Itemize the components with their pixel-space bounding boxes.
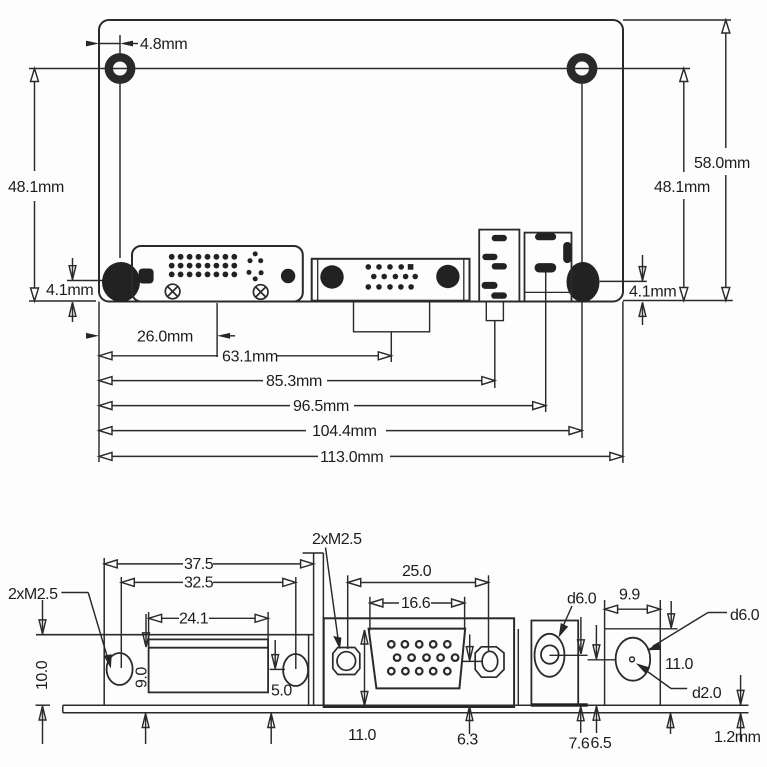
svg-text:6.5: 6.5 bbox=[591, 735, 612, 752]
svg-text:6.3: 6.3 bbox=[457, 732, 478, 749]
DC jack2 top reference line bbox=[605, 628, 678, 630]
leader d2.0 bbox=[636, 663, 687, 688]
extension line board right bottom bbox=[622, 302, 624, 464]
dimension 6.3 bbox=[462, 634, 483, 734]
extension line DC connector center bbox=[494, 321, 496, 388]
DVI screw left side view bbox=[107, 653, 133, 685]
svg-text:113.0mm: 113.0mm bbox=[320, 449, 383, 466]
dimension 4.1mm left bbox=[67, 258, 103, 322]
svg-text:48.1mm: 48.1mm bbox=[8, 179, 64, 196]
dimension 16.6 bbox=[370, 597, 465, 631]
dimension 85.3mm bbox=[99, 377, 495, 385]
svg-text:32.5: 32.5 bbox=[184, 575, 214, 592]
corner pad bottom-left bbox=[102, 262, 140, 302]
DVI screw right side view bbox=[283, 654, 308, 686]
switch connector top view bbox=[525, 233, 572, 302]
svg-text:d2.0: d2.0 bbox=[692, 685, 722, 702]
svg-text:d6.0: d6.0 bbox=[567, 591, 597, 608]
dimension 7.6 bbox=[577, 617, 584, 733]
leader 2xM2.5 top bbox=[326, 548, 342, 650]
svg-text:104.4mm: 104.4mm bbox=[312, 423, 377, 440]
svg-text:16.6: 16.6 bbox=[401, 595, 431, 612]
svg-text:25.0: 25.0 bbox=[402, 563, 432, 580]
top view labels bbox=[8, 36, 750, 466]
mounting hole left bbox=[109, 57, 131, 79]
svg-text:5.0: 5.0 bbox=[271, 683, 292, 700]
dimension 4.1mm right bbox=[600, 255, 733, 325]
svg-text:58.0mm: 58.0mm bbox=[694, 155, 750, 172]
DVI screw boss left bbox=[165, 284, 180, 299]
dimension 26.0mm bbox=[86, 333, 235, 339]
dimension 48.1mm left bbox=[29, 69, 96, 302]
DC jack2 circle bbox=[616, 638, 651, 681]
mounting hole right bbox=[571, 57, 593, 79]
dimension 37.5 bbox=[104, 560, 313, 568]
extension line switch connector center bbox=[545, 273, 547, 413]
dimension 1.2mm bbox=[737, 675, 744, 741]
dimension 9.9 bbox=[605, 600, 661, 705]
svg-text:37.5: 37.5 bbox=[184, 556, 214, 573]
dimension 4.8mm bbox=[86, 41, 138, 47]
VGA trapezoid shell bbox=[369, 629, 466, 689]
corner pad bottom-right bbox=[567, 262, 600, 302]
pcb strip side view bbox=[36, 705, 749, 713]
svg-text:2xM2.5: 2xM2.5 bbox=[8, 586, 58, 603]
dimension 96.5mm bbox=[99, 402, 546, 410]
svg-text:24.1: 24.1 bbox=[179, 611, 209, 628]
svg-text:48.1mm: 48.1mm bbox=[654, 179, 710, 196]
VGA hex nut right bbox=[475, 647, 504, 677]
dimension 24.1 bbox=[149, 612, 269, 648]
dimension 58.0mm right bbox=[623, 20, 731, 301]
VGA pin grid 15 bbox=[366, 264, 419, 290]
VGA bracket body bbox=[324, 618, 514, 707]
DC jack side view bbox=[531, 621, 588, 707]
dimension 104.4mm bbox=[99, 427, 582, 435]
svg-text:1.2mm: 1.2mm bbox=[714, 729, 761, 746]
dimension 9.0 bbox=[142, 614, 149, 744]
DC power connector top view bbox=[479, 230, 519, 321]
svg-text:d6.0: d6.0 bbox=[730, 607, 760, 624]
leader d6.0 left bbox=[559, 606, 572, 638]
svg-text:4.8mm: 4.8mm bbox=[140, 36, 187, 53]
bottom view labels bbox=[8, 531, 761, 753]
extension line DVI center bbox=[216, 303, 218, 357]
svg-text:11.0: 11.0 bbox=[348, 727, 377, 744]
leader 2xM2.5 left bbox=[61, 593, 111, 669]
svg-text:4.1mm: 4.1mm bbox=[46, 282, 93, 299]
DVI screw boss right bbox=[253, 285, 268, 300]
dimension 6.5 bbox=[588, 625, 616, 733]
svg-text:26.0mm: 26.0mm bbox=[137, 329, 193, 346]
VGA bracket right inner line bbox=[517, 629, 519, 705]
svg-text:10.0: 10.0 bbox=[34, 660, 51, 690]
bracket mid panel bbox=[303, 553, 324, 705]
dimension 11.0 right bbox=[667, 601, 675, 734]
dimension 10.0 bbox=[39, 600, 46, 744]
dimension 63.1mm bbox=[99, 352, 391, 360]
extension line VGA center bbox=[390, 332, 392, 362]
svg-text:2xM2.5: 2xM2.5 bbox=[312, 531, 362, 548]
VGA connector top view bbox=[312, 259, 470, 332]
svg-text:11.0: 11.0 bbox=[665, 656, 694, 673]
chassis reference line bbox=[36, 634, 314, 636]
DVI analog pin cluster bbox=[247, 251, 264, 281]
leader d6.0 right bbox=[647, 613, 727, 651]
dimension 113.0mm bbox=[99, 452, 623, 460]
svg-text:9.0: 9.0 bbox=[134, 667, 151, 688]
DVI bracket panel bbox=[104, 558, 308, 705]
svg-text:63.1mm: 63.1mm bbox=[222, 348, 278, 365]
dimension 25.0 bbox=[348, 575, 489, 651]
DVI shell side view bbox=[149, 639, 269, 692]
extension line board left bottom bbox=[98, 302, 100, 463]
svg-text:96.5mm: 96.5mm bbox=[293, 398, 349, 415]
svg-text:85.3mm: 85.3mm bbox=[266, 373, 322, 390]
dimension 5.0 bbox=[268, 640, 285, 744]
dimension 32.5 bbox=[121, 577, 295, 669]
hole right vertical centerline bbox=[581, 81, 583, 438]
dimension 48.1mm right bbox=[680, 69, 688, 301]
svg-text:7.6: 7.6 bbox=[569, 736, 590, 753]
DVI connector top view bbox=[132, 246, 303, 302]
hole centerline horizontal bbox=[29, 68, 690, 70]
board outline bbox=[99, 20, 623, 302]
VGA hex nut left bbox=[333, 648, 360, 675]
dimension 11.0 VGA bbox=[361, 630, 368, 706]
DVI pin grid 3x8 bbox=[169, 254, 237, 277]
hole left vertical centerline bbox=[119, 35, 121, 258]
svg-text:9.9: 9.9 bbox=[619, 587, 640, 604]
svg-text:4.1mm: 4.1mm bbox=[629, 284, 676, 301]
